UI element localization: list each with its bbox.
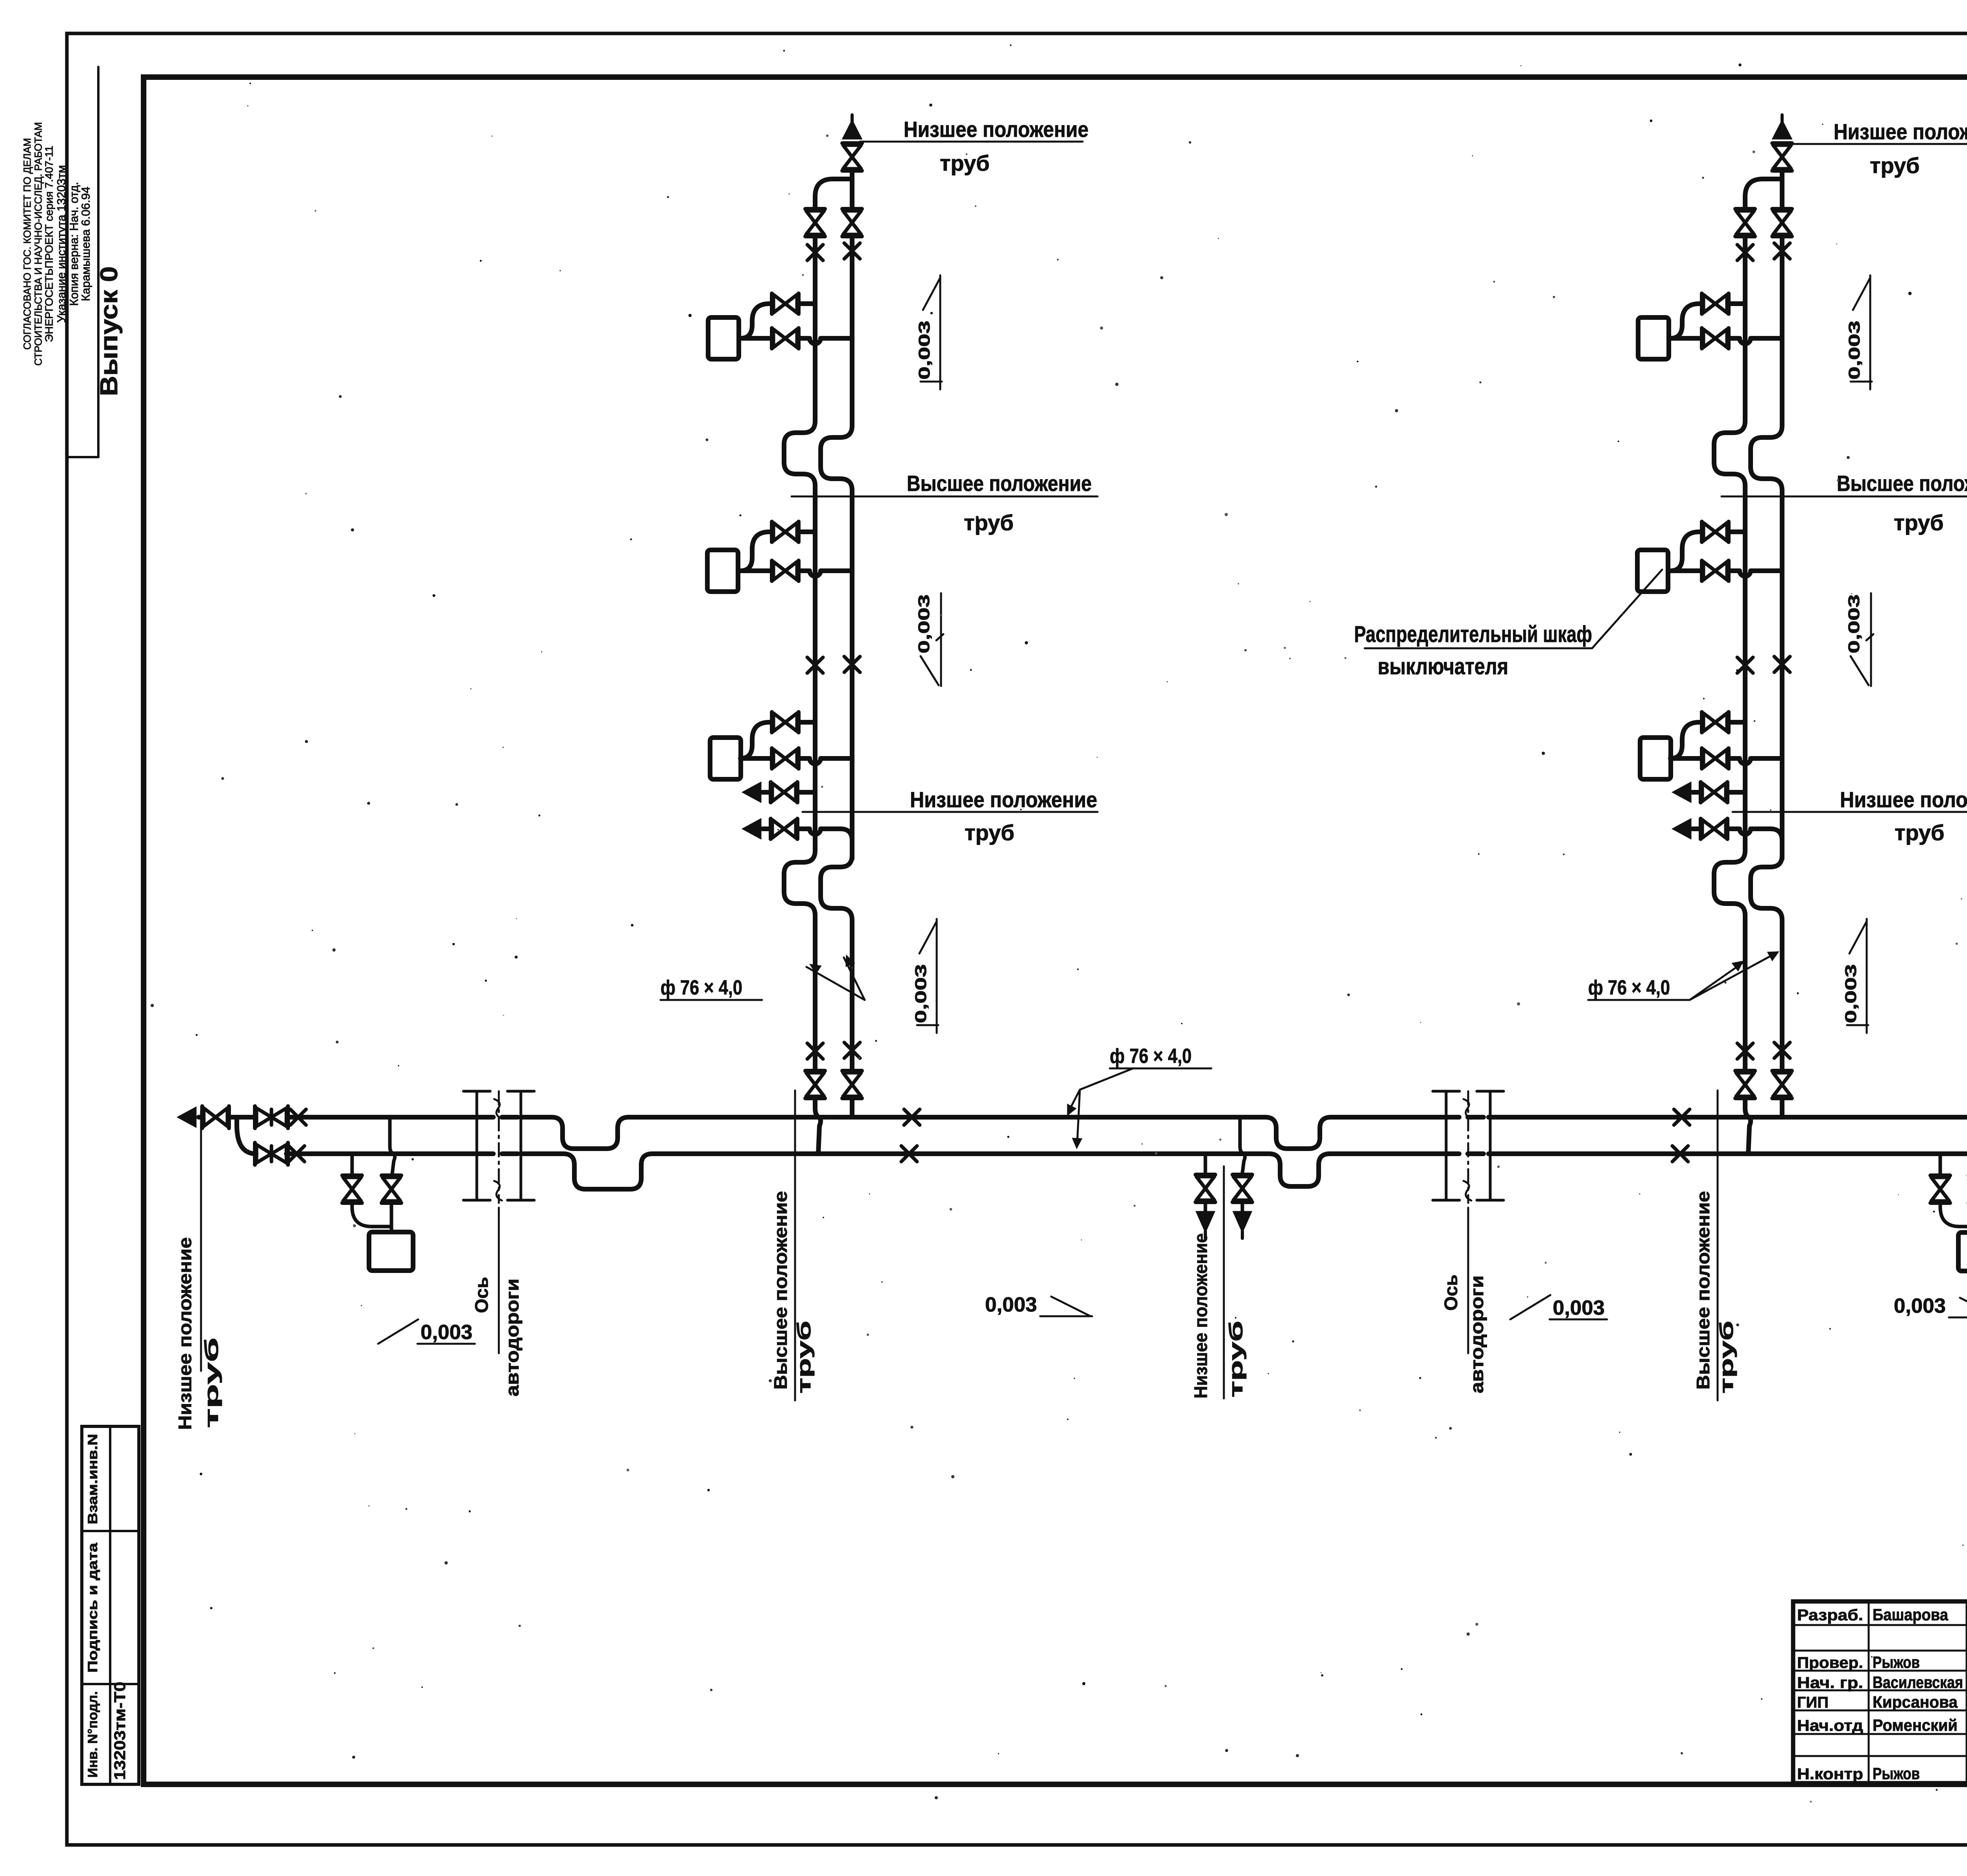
svg-text:Взам.инв.N: Взам.инв.N — [85, 1434, 100, 1524]
svg-text:труб: труб — [1895, 820, 1945, 845]
svg-text:0,003: 0,003 — [421, 1321, 472, 1344]
valve on right riser (upper) [branch 2] — [1772, 209, 1792, 236]
svg-text:0,003: 0,003 — [916, 321, 933, 380]
label Высшее положение труб (branch 2) — [1722, 471, 1967, 535]
svg-text:автодороги: автодороги — [502, 1278, 522, 1396]
svg-text:Башарова: Башарова — [1873, 1605, 1949, 1624]
valve on right riser (lower) [branch 2] — [1772, 1071, 1792, 1098]
slope marker 0,003 (main, left) — [378, 1319, 475, 1344]
svg-text:Низшее положение: Низшее положение — [1190, 1233, 1211, 1398]
road crossing casing 1 (Ось автодороги) — [463, 1091, 534, 1353]
svg-text:труб: труб — [965, 820, 1015, 845]
take-off group 3 (cabinet+valves) [branch 1] — [710, 712, 852, 779]
svg-text:Высшее положение: Высшее положение — [770, 1191, 791, 1390]
cross joint right riser (upper) [branch 2] — [1774, 243, 1790, 259]
svg-text:Низшее положение: Низшее положение — [904, 117, 1089, 142]
label Низшее положение труб (branch 2 lower) — [1733, 787, 1967, 845]
inventory number 13203тм-Т0 — [111, 1682, 129, 1780]
svg-text:труб: труб — [201, 1337, 222, 1428]
mid drain (bottom pipe) with vent arrow — [1196, 1154, 1215, 1238]
cross joint left riser (lower) [branch 1] — [807, 1043, 823, 1059]
svg-text:Н.контр: Н.контр — [1797, 1765, 1863, 1783]
label ф76х4,0 (main line) + leader — [1068, 1045, 1211, 1148]
label Низшее положение труб (branch top 2) — [1790, 119, 1967, 178]
mid drain (top pipe) with vent arrow — [1233, 1117, 1252, 1238]
label ф76х4,0 (branch 2) + leader — [1588, 952, 1778, 1000]
svg-text:Выпуск 0: Выпуск 0 — [96, 266, 123, 396]
vent triangle at branch top [branch 1] — [843, 115, 862, 139]
blow-off arrow row A [branch 1] — [743, 782, 815, 802]
valve on right riser (lower) [branch 1] — [842, 1071, 862, 1098]
svg-text:Рыжов: Рыжов — [1873, 1653, 1920, 1671]
cross joint left riser (upper) [branch 1] — [807, 245, 823, 260]
take-off group 2 (cabinet+valves) [branch 2] — [1637, 522, 1782, 592]
take-off group 2 (cabinet+valves) [branch 1] — [707, 522, 852, 592]
svg-text:Роменский: Роменский — [1873, 1716, 1958, 1734]
valve on left riser (lower) [branch 2] — [1735, 1071, 1755, 1098]
svg-text:труб: труб — [940, 151, 990, 175]
svg-text:выключателя: выключателя — [1378, 654, 1508, 679]
cross joint right riser (upper) [branch 1] — [844, 243, 860, 259]
slope marker 0,003 (branch1 lower) — [912, 919, 938, 1033]
cross joint left riser (mid) [branch 2] — [1737, 657, 1753, 673]
main air pipe (bottom) — [237, 1117, 1967, 1189]
cross joint left riser (lower) [branch 2] — [1737, 1043, 1753, 1059]
slope marker 0,003 (main, right) — [1894, 1295, 1967, 1317]
svg-text:труб: труб — [1870, 153, 1920, 178]
svg-text:Кирсанова: Кирсанова — [1873, 1693, 1958, 1711]
road crossing casing 2 (Ось автодороги) — [1433, 1091, 1504, 1353]
svg-text:Василевская: Василевская — [1873, 1673, 1963, 1692]
label Ось автодороги (road 1) — [471, 1277, 522, 1396]
svg-text:ГИП: ГИП — [1797, 1694, 1829, 1711]
take-off group 1 (cabinet+valves) [branch 1] — [708, 293, 852, 359]
svg-text:Инв. N°подл.: Инв. N°подл. — [85, 1691, 100, 1778]
svg-text:Нач.отд: Нач.отд — [1797, 1717, 1863, 1734]
svg-text:Указание института 13203тм: Указание института 13203тм — [55, 165, 68, 323]
branch left riser [branch 2] — [1714, 179, 1782, 1154]
vent valve [branch 1] — [842, 143, 862, 171]
cross joint left riser (upper) [branch 2] — [1737, 245, 1753, 260]
slope marker 0,003 (branch1 mid) — [915, 593, 943, 686]
svg-text:Нач. гр.: Нач. гр. — [1797, 1674, 1863, 1692]
svg-text:ф 76 × 4,0: ф 76 × 4,0 — [1588, 976, 1670, 999]
cross joint left riser (mid) [branch 1] — [807, 657, 823, 673]
drain pair + distribution cabinet (right) — [1930, 1117, 1967, 1271]
label Высшее положение труб (branch 1) — [792, 471, 1098, 535]
svg-text:Рыжов: Рыжов — [1873, 1764, 1920, 1783]
svg-text:13203тм-Т0: 13203тм-Т0 — [111, 1682, 129, 1780]
take-off group 1 (cabinet+valves) [branch 2] — [1638, 293, 1782, 359]
inlet arrow (left end, top pipe) — [178, 1107, 196, 1127]
cross joint top pipe (right of road 2) — [1674, 1109, 1690, 1125]
svg-text:0,003: 0,003 — [1553, 1297, 1605, 1319]
cross joint bottom pipe (right of road 2) — [1672, 1146, 1688, 1162]
vent valve [branch 2] — [1772, 143, 1792, 171]
label Низшее положение труб (branch top 1) — [860, 117, 1089, 175]
svg-text:ф 76 × 4,0: ф 76 × 4,0 — [661, 976, 742, 999]
label Распределительный шкаф выключателя + leader — [1354, 570, 1662, 679]
slope marker 0,003 (main, centre-right) — [1510, 1295, 1607, 1319]
svg-text:Низшее положение: Низшее положение — [910, 787, 1097, 812]
branch left riser [branch 1] — [784, 179, 852, 1154]
svg-text:труб: труб — [1716, 1321, 1737, 1394]
cross joint right riser (lower) [branch 1] — [844, 1042, 860, 1058]
valve on left riser (upper) [branch 2] — [1735, 209, 1755, 236]
svg-text:0,003: 0,003 — [915, 594, 933, 653]
svg-text:ф 76 × 4,0: ф 76 × 4,0 — [1110, 1045, 1192, 1068]
valve at inlet — [202, 1106, 229, 1128]
slope marker 0,003 (branch1 upper) — [916, 275, 942, 389]
svg-text:Высшее положение: Высшее положение — [1693, 1191, 1713, 1390]
title block signature rows — [1797, 1605, 1967, 1783]
label Высшее положение труб (rotated, 1) — [770, 1090, 815, 1400]
valve on right riser (upper) [branch 1] — [842, 209, 862, 236]
label Низшее положение труб (far left, rotated) — [175, 1111, 222, 1430]
label Низшее положение труб (branch 1 lower) — [803, 787, 1098, 845]
cross joint on bottom pipe — [289, 1146, 304, 1162]
svg-text:труб: труб — [1894, 510, 1944, 535]
blow-off arrow row A [branch 2] — [1673, 782, 1745, 802]
label Взам.инв.N — [85, 1434, 100, 1524]
svg-text:Провер.: Провер. — [1797, 1654, 1863, 1671]
svg-text:Низшее положение: Низшее положение — [1840, 787, 1967, 812]
branch right riser [branch 2] — [1751, 172, 1782, 1117]
svg-text:Разраб.: Разраб. — [1797, 1607, 1863, 1624]
svg-text:Низшее положение: Низшее положение — [1834, 119, 1967, 144]
left stamp table — [82, 1426, 139, 1784]
svg-text:0,003: 0,003 — [1846, 321, 1863, 380]
svg-text:Распределительный шкаф: Распределительный шкаф — [1354, 622, 1592, 647]
valve on left riser (upper) [branch 1] — [805, 209, 825, 236]
slope marker 0,003 (main, centre-left) — [985, 1293, 1092, 1316]
label Инв.N подл. — [85, 1691, 100, 1778]
branch right riser [branch 1] — [821, 172, 852, 1117]
title block grid — [1793, 1601, 1967, 1783]
cross joint bottom pipe (mid) — [901, 1146, 917, 1162]
valve on bottom pipe — [255, 1143, 288, 1165]
cross joint on top pipe — [290, 1109, 306, 1125]
svg-text:Подпись и дата: Подпись и дата — [85, 1542, 100, 1673]
label Высшее положение труб (rotated, 2) — [1693, 1090, 1737, 1400]
label Подпись и дата — [85, 1542, 100, 1673]
label ф76х4,0 (branch 1) + leader — [661, 956, 865, 1000]
svg-text:Карамышева 6.06.94: Карамышева 6.06.94 — [79, 186, 92, 301]
main air pipe (top) — [199, 1117, 1967, 1149]
label Ось автодороги (road 2) — [1441, 1275, 1487, 1393]
svg-text:0,003: 0,003 — [912, 964, 930, 1023]
cross joint top pipe (mid) — [904, 1109, 920, 1125]
valve on left riser (lower) [branch 1] — [805, 1071, 825, 1098]
left margin column line — [67, 67, 98, 457]
blow-off arrow row B [branch 1] — [743, 819, 852, 841]
svg-text:Низшее положение: Низшее положение — [175, 1237, 195, 1430]
svg-text:труб: труб — [1226, 1321, 1247, 1398]
svg-text:ЭНЕРГОСЕТЬПРОЕКТ серия 7.407-1: ЭНЕРГОСЕТЬПРОЕКТ серия 7.407-11 — [43, 146, 55, 342]
svg-text:автодороги: автодороги — [1467, 1275, 1487, 1393]
slope marker 0,003 (branch2 upper) — [1846, 275, 1872, 389]
take-off group 3 (cabinet+valves) [branch 2] — [1640, 712, 1782, 779]
svg-text:Высшее положение: Высшее положение — [907, 471, 1092, 496]
svg-text:0,003: 0,003 — [1842, 964, 1860, 1023]
cross joint right riser (mid) [branch 1] — [844, 657, 860, 672]
blow-off arrow row B [branch 2] — [1673, 819, 1782, 841]
svg-text:СТРОИТЕЛЬСТВА И НАУЧНО-ИССЛЕД.: СТРОИТЕЛЬСТВА И НАУЧНО-ИССЛЕД. РАБОТАМ — [32, 122, 44, 365]
svg-text:Высшее положение: Высшее положение — [1837, 471, 1967, 496]
svg-text:СОГЛАСОВАНО ГОС. КОМИТЕТ ПО ДЕ: СОГЛАСОВАНО ГОС. КОМИТЕТ ПО ДЕЛАМ — [21, 138, 33, 350]
valve on top pipe — [255, 1106, 288, 1128]
svg-text:Ось: Ось — [1441, 1275, 1461, 1311]
issue mark Выпуск 0 — [96, 266, 123, 396]
svg-text:0,003: 0,003 — [1894, 1295, 1946, 1317]
svg-text:Ось: Ось — [471, 1277, 492, 1313]
slope marker 0,003 (branch2 mid) — [1845, 593, 1873, 686]
svg-text:труб: труб — [964, 510, 1014, 535]
svg-text:труб: труб — [794, 1321, 815, 1394]
cross joint right riser (mid) [branch 2] — [1774, 657, 1790, 672]
cross joint right riser (lower) [branch 2] — [1774, 1042, 1790, 1058]
svg-text:0,003: 0,003 — [985, 1293, 1037, 1316]
svg-text:0,003: 0,003 — [1845, 594, 1863, 653]
drain pair + distribution cabinet (left) — [342, 1117, 413, 1271]
stamp text block (illegible scan text) — [21, 122, 92, 365]
svg-text:Копия верна: Нач. отд.: Копия верна: Нач. отд. — [68, 182, 81, 306]
slope marker 0,003 (branch2 lower) — [1842, 919, 1868, 1033]
label Низшее положение труб (mid, rotated) — [1190, 1166, 1247, 1398]
vent triangle at branch top [branch 2] — [1773, 115, 1792, 139]
